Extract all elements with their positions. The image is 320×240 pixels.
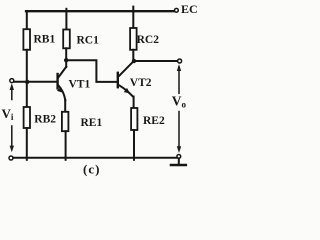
svg-text:RB2: RB2 [34, 114, 56, 126]
wire: collector node to output terminal [134, 60, 177, 62]
wire: junction to ground symbol [178, 158, 180, 164]
resistor RE1 [62, 112, 69, 131]
wire: coupling VT1 collector to VT2 base [66, 60, 117, 82]
svg-text:VT1: VT1 [69, 78, 91, 90]
svg-text:RC1: RC1 [77, 35, 100, 47]
wire: input terminal to VT1 base [14, 81, 57, 83]
wire: RB1 to VT1 base node [26, 50, 28, 82]
terminal: output (open circle) [178, 59, 182, 63]
wire: RC1 to VT1 collector corner [65, 48, 67, 67]
wire: VT2 emitter down to RE2 [133, 97, 135, 109]
wire: rail down to RB1 [26, 11, 28, 30]
Vo return arrow (points down) [177, 112, 181, 154]
wire: RB2 down to ground rail [26, 128, 28, 160]
wire: RC2 to VT2 collector node [132, 50, 134, 62]
junction: output return at ground rail (open circle) [177, 155, 181, 159]
junction: VT1 collector / coupling node [64, 58, 68, 62]
resistor RB2 [24, 107, 30, 128]
svg-text:Vo: Vo [172, 94, 187, 110]
resistor RE2 [131, 108, 137, 130]
resistor RC2 [130, 28, 137, 50]
Vi return arrow (points down) [10, 126, 14, 152]
ground [171, 164, 186, 167]
terminal: input top (open circle) [10, 79, 14, 83]
junction: VT2 collector / output node [132, 59, 136, 63]
svg-text:(c): (c) [83, 161, 100, 176]
resistor RC1 [63, 30, 70, 49]
Vi voltage arrow (points up) [10, 83, 14, 99]
transistor VT1 [57, 67, 66, 100]
terminal: input bottom (open circle) [9, 156, 13, 160]
wire: RE2 down to ground rail [133, 130, 135, 160]
resistor RB1 [23, 29, 30, 50]
svg-text:RE1: RE1 [81, 117, 103, 129]
svg-text:Vi: Vi [2, 106, 14, 122]
wire: rail down to RC1 [65, 9, 67, 30]
wire: base node down to RB2 [26, 82, 28, 107]
Vo voltage arrow (points up) [177, 64, 181, 93]
terminal: EC supply (open circle) [175, 8, 179, 12]
svg-text:RB1: RB1 [34, 33, 56, 45]
wire: RE1 down to ground rail [65, 131, 67, 160]
wire: rail down to RC2 (with tick above rail) [132, 7, 134, 29]
wire: +EC top supply rail [26, 10, 174, 12]
wire: VT1 emitter down to RE1 [64, 100, 66, 112]
transistor VT2 [118, 61, 134, 96]
svg-text:RC2: RC2 [137, 34, 160, 46]
wire: ground rail (bottom) [13, 157, 176, 159]
svg-text:VT2: VT2 [130, 77, 152, 89]
svg-text:EC: EC [181, 2, 198, 16]
svg-text:RE2: RE2 [143, 115, 165, 127]
junction: VT1 base node (RB1/RB2/input) [25, 80, 29, 84]
